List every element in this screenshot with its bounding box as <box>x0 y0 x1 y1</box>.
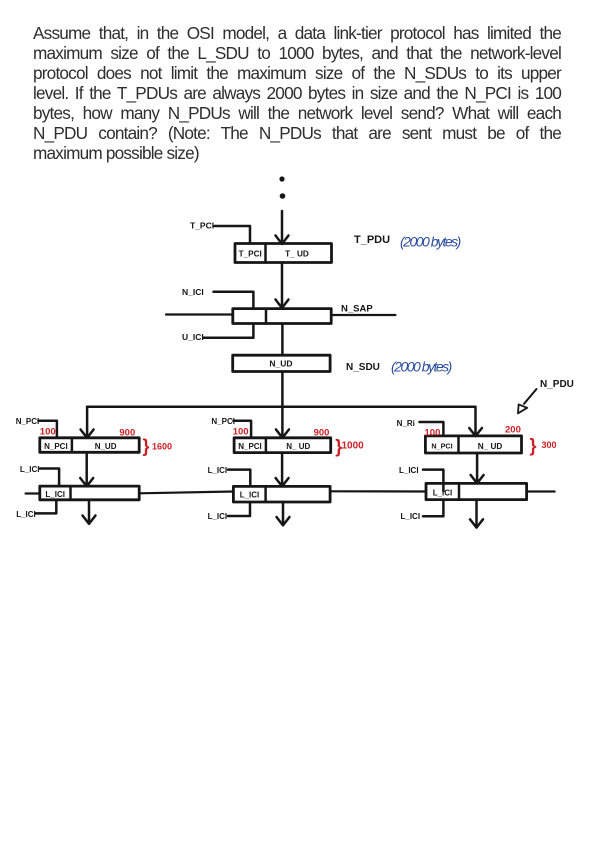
svg-text:N_UD: N_UD <box>269 359 292 369</box>
svg-text:N_ UD: N_ UD <box>478 442 503 451</box>
svg-text:N_PCI: N_PCI <box>431 442 452 451</box>
svg-text:N_PCI: N_PCI <box>211 417 235 426</box>
svg-text:L_ICI: L_ICI <box>45 490 65 499</box>
svg-text:N_SAP: N_SAP <box>341 304 373 315</box>
svg-text:(2000 bytes): (2000 bytes) <box>400 234 461 250</box>
svg-text:L_ICI: L_ICI <box>401 512 421 521</box>
svg-text:L_ICI: L_ICI <box>399 466 419 475</box>
svg-text:}: } <box>530 436 537 456</box>
svg-text:N_ICI: N_ICI <box>182 287 204 297</box>
svg-text:N_Ri: N_Ri <box>397 419 415 428</box>
svg-text:U_ICI: U_ICI <box>182 332 204 342</box>
svg-text:300: 300 <box>542 440 557 450</box>
svg-text:T_PCI: T_PCI <box>190 221 214 231</box>
svg-text:L_ICI: L_ICI <box>208 512 228 521</box>
svg-text:100: 100 <box>40 426 56 437</box>
svg-text:1600: 1600 <box>152 442 172 452</box>
svg-text:L_ICI: L_ICI <box>240 491 260 500</box>
svg-text:100: 100 <box>233 426 249 437</box>
svg-text:L_ICI: L_ICI <box>433 489 453 498</box>
svg-text:L_ICI: L_ICI <box>20 465 40 474</box>
svg-text:N_ UD: N_ UD <box>286 442 310 451</box>
svg-text:N_PCI: N_PCI <box>44 442 68 451</box>
svg-text:N_PCI: N_PCI <box>16 417 40 426</box>
svg-text:L_ICI: L_ICI <box>208 466 228 475</box>
svg-text:N_PCI: N_PCI <box>238 442 262 451</box>
svg-text:L_ICI: L_ICI <box>16 510 36 519</box>
svg-text:T_PDU: T_PDU <box>354 234 390 246</box>
svg-text:900: 900 <box>119 427 135 438</box>
svg-text:N_PDU: N_PDU <box>540 379 574 390</box>
svg-text:T_ UD: T_ UD <box>285 250 309 259</box>
svg-text:T_PCI: T_PCI <box>239 250 262 259</box>
svg-text:N_UD: N_UD <box>95 442 117 451</box>
svg-text:200: 200 <box>505 424 521 435</box>
svg-text:(2000 bytes): (2000 bytes) <box>391 359 452 375</box>
svg-text:}: } <box>143 436 150 456</box>
svg-text:100: 100 <box>425 427 441 438</box>
svg-text:N_SDU: N_SDU <box>346 362 380 373</box>
svg-text:1000: 1000 <box>342 441 365 452</box>
svg-text:900: 900 <box>314 427 330 438</box>
